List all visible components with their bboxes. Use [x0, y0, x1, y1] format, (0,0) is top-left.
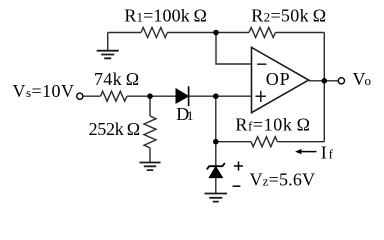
- svg-text:Vz=5.6V: Vz=5.6V: [250, 170, 316, 190]
- arrow If: [295, 149, 316, 154]
- svg-text:Vs=10V: Vs=10V: [13, 81, 75, 101]
- wire top rail middle segment: [167, 32, 249, 34]
- resistor Rf: [251, 137, 277, 147]
- op-amp plus sign: [256, 91, 267, 102]
- ground (top-left): [97, 51, 119, 59]
- wire 252k branch top: [149, 96, 151, 116]
- node B (74k-252k junction): [147, 93, 153, 99]
- terminal Vo: [338, 78, 344, 84]
- wire top rail right segment: [275, 32, 324, 34]
- label plus (zener): [234, 162, 243, 171]
- node C (diode cathode junction): [213, 93, 219, 99]
- wire zener to ground: [215, 178, 217, 194]
- svg-text:OP: OP: [266, 69, 290, 89]
- op-amp minus sign: [257, 63, 266, 65]
- resistor R1: [141, 28, 167, 38]
- wire op-amp output: [309, 80, 339, 82]
- label minus (zener): [233, 185, 241, 187]
- diode D1: [176, 86, 189, 106]
- resistor 74k: [101, 91, 127, 101]
- op-amp U1: [252, 47, 309, 112]
- wire mid vertical node to zener: [215, 96, 217, 166]
- svg-text:1: 1: [187, 108, 194, 123]
- svg-text:74k Ω: 74k Ω: [94, 69, 139, 89]
- wire Rf right segment: [277, 141, 324, 143]
- node E (output junction): [322, 78, 328, 84]
- ground (below zener): [205, 194, 228, 202]
- terminal Vs: [77, 93, 83, 99]
- wire inverting input: [216, 33, 252, 65]
- node A (R1-R2 junction): [213, 30, 219, 36]
- wire top rail left segment: [108, 32, 141, 34]
- wire ground stub top-left: [107, 33, 109, 51]
- svg-text:252k Ω: 252k Ω: [89, 119, 141, 139]
- wire 252k to ground: [149, 148, 151, 163]
- wire 74k to diode: [127, 95, 176, 97]
- node D (Rf left junction): [213, 139, 219, 145]
- ground (below 252k): [140, 163, 161, 171]
- resistor R2: [249, 28, 275, 38]
- svg-text:Vo: Vo: [353, 69, 372, 89]
- svg-text:R1=100k Ω: R1=100k Ω: [124, 6, 206, 26]
- wire right vertical (R2/output/Rf): [323, 33, 325, 142]
- wire Vs to 74k: [83, 95, 101, 97]
- svg-text:If: If: [321, 143, 334, 163]
- wire Rf left segment: [216, 141, 251, 143]
- svg-text:Rf=10k Ω: Rf=10k Ω: [235, 115, 310, 135]
- svg-text:R2=50k Ω: R2=50k Ω: [251, 6, 326, 26]
- zener diode Vz: [207, 163, 225, 178]
- resistor 252k: [144, 116, 156, 148]
- wire diode to op-amp plus input: [188, 95, 251, 97]
